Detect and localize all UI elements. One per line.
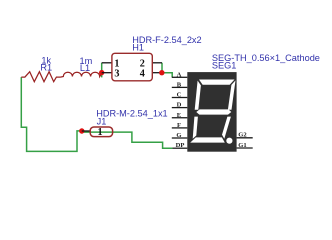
pin C line <box>172 97 188 99</box>
svg-text:HDR-M-2.54_1x1: HDR-M-2.54_1x1 <box>96 108 167 118</box>
pin name F <box>177 122 181 129</box>
pin number 1 J1 <box>97 127 102 138</box>
label HDR-M-2.54_1x1 <box>96 108 167 118</box>
svg-text:4: 4 <box>140 69 145 80</box>
pin name G2 <box>238 132 247 139</box>
svg-text:G2: G2 <box>238 132 247 139</box>
display SEG1 body <box>187 72 236 152</box>
pin 1 stub J1 <box>82 130 90 132</box>
pin name B <box>177 81 182 88</box>
pin name A <box>177 71 182 78</box>
node junction dot1 <box>99 70 104 75</box>
label SEG1 <box>212 60 237 70</box>
node junction dot3 <box>79 128 84 133</box>
node junction dot2 <box>159 70 164 75</box>
wire net1 left loop <box>21 77 82 151</box>
wire DP net <box>83 132 172 148</box>
label J1 <box>97 117 107 127</box>
wire H1 left vertical <box>101 63 103 78</box>
pin 1 stub H1 <box>102 62 112 64</box>
inductor L1 <box>61 72 102 77</box>
pin DP line <box>172 147 187 149</box>
svg-text:F: F <box>177 122 181 129</box>
pin name DP <box>176 142 185 149</box>
svg-text:D: D <box>177 102 182 109</box>
pin number 3 <box>114 69 119 80</box>
svg-text:DP: DP <box>176 142 185 149</box>
svg-text:G: G <box>176 132 181 139</box>
header J1 body <box>90 127 112 137</box>
svg-text:C: C <box>177 92 182 99</box>
svg-text:1: 1 <box>97 127 102 138</box>
pin number 1 <box>114 59 119 70</box>
header H1 body <box>112 53 152 81</box>
pin B line <box>172 86 188 88</box>
svg-text:L1: L1 <box>80 63 90 73</box>
svg-text:E: E <box>177 112 182 119</box>
svg-text:B: B <box>177 81 182 88</box>
pin 4 stub H1 <box>152 72 162 74</box>
pin name G1 <box>238 142 246 149</box>
pin A line <box>172 76 188 78</box>
resistor R1 <box>21 72 60 82</box>
pin name G <box>176 132 181 139</box>
svg-text:H1: H1 <box>132 42 144 52</box>
svg-text:3: 3 <box>114 69 119 80</box>
label 1k <box>41 55 51 65</box>
decimal point DP <box>226 138 232 144</box>
pin D line <box>172 107 188 109</box>
seven segment digit <box>190 80 235 143</box>
label R1 <box>40 62 52 72</box>
pin 3 stub H1 <box>102 72 112 74</box>
svg-text:G1: G1 <box>238 142 246 149</box>
pin name D <box>177 102 182 109</box>
svg-text:R1: R1 <box>40 62 52 72</box>
pin G1 line <box>237 147 253 149</box>
label SEG-TH_0.56x1_Cathode <box>212 53 320 63</box>
pin G line <box>172 137 188 139</box>
svg-text:J1: J1 <box>97 117 107 127</box>
pin number 4 <box>140 69 145 80</box>
svg-text:A: A <box>177 71 182 78</box>
label HDR-F-2.54_2x2 <box>132 35 201 45</box>
pin name C <box>177 92 182 99</box>
pin F line <box>172 127 188 129</box>
pin E line <box>172 117 188 119</box>
pin number 2 <box>140 59 145 70</box>
svg-text:SEG1: SEG1 <box>212 60 237 70</box>
pin name E <box>177 112 182 119</box>
label H1 <box>132 42 144 52</box>
pin G2 line <box>237 137 253 139</box>
label 1m <box>80 56 93 66</box>
wire H1 right vertical <box>162 63 172 78</box>
label L1 <box>80 63 90 73</box>
pin 2 stub H1 <box>152 62 162 64</box>
